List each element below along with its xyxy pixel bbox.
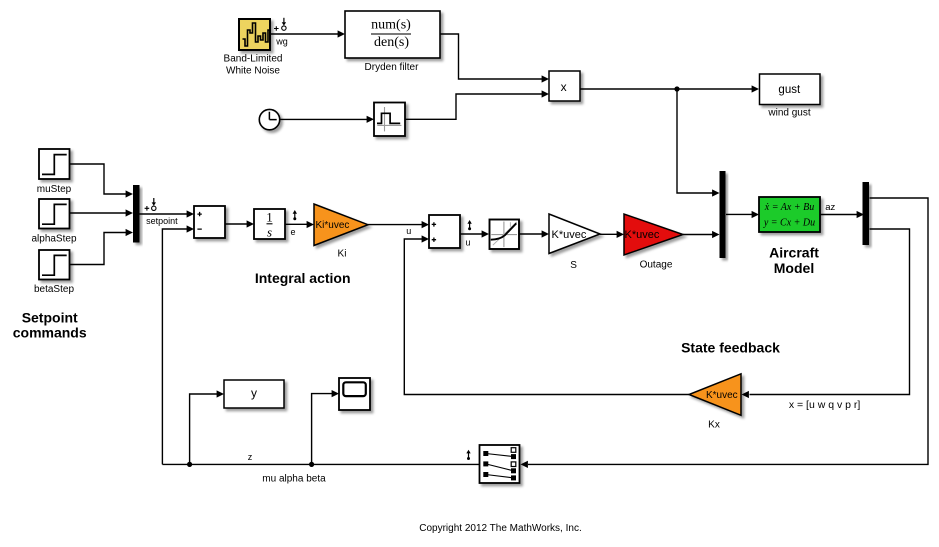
- svg-text:num(s): num(s): [371, 18, 411, 33]
- svg-text:setpoint: setpoint: [146, 216, 178, 226]
- svg-text:Aircraft: Aircraft: [769, 245, 819, 261]
- svg-text:alphaStep: alphaStep: [31, 234, 76, 245]
- svg-text:gust: gust: [778, 84, 801, 96]
- svg-text:K*uvec: K*uvec: [552, 229, 587, 241]
- svg-text:y = Cx + Du: y = Cx + Du: [763, 218, 815, 229]
- svg-text:Kx: Kx: [708, 420, 720, 431]
- svg-text:White Noise: White Noise: [226, 66, 280, 77]
- svg-text:Dryden filter: Dryden filter: [365, 62, 420, 73]
- svg-text:Setpoint: Setpoint: [22, 310, 78, 326]
- svg-text:K*uvec: K*uvec: [706, 390, 738, 401]
- svg-text:Outage: Outage: [640, 259, 673, 270]
- svg-text:den(s): den(s): [374, 35, 409, 50]
- svg-text:wg: wg: [275, 36, 288, 46]
- svg-text:az: az: [825, 202, 835, 213]
- svg-text:Copyright 2012 The MathWorks,: Copyright 2012 The MathWorks, Inc.: [419, 523, 582, 534]
- svg-text:z: z: [248, 452, 253, 462]
- svg-text:commands: commands: [13, 324, 87, 340]
- svg-text:muStep: muStep: [37, 184, 72, 195]
- svg-text:y: y: [251, 386, 257, 400]
- svg-text:ẋ = Ax + Bu: ẋ = Ax + Bu: [764, 202, 814, 213]
- svg-text:e: e: [290, 227, 295, 237]
- svg-text:Band-Limited: Band-Limited: [224, 54, 283, 65]
- svg-text:K*uvec: K*uvec: [625, 229, 660, 241]
- svg-text:mu alpha beta: mu alpha beta: [262, 474, 326, 485]
- svg-text:S: S: [570, 260, 577, 271]
- svg-text:x = [u w q v p r]: x = [u w q v p r]: [789, 399, 861, 411]
- svg-text:betaStep: betaStep: [34, 284, 74, 295]
- svg-text:Ki*uvec: Ki*uvec: [316, 220, 350, 231]
- svg-text:State feedback: State feedback: [681, 340, 780, 356]
- svg-text:Model: Model: [774, 260, 814, 276]
- svg-text:u: u: [465, 237, 470, 247]
- svg-text:wind gust: wind gust: [767, 107, 810, 118]
- svg-text:u: u: [406, 226, 411, 236]
- svg-text:Ki: Ki: [338, 249, 347, 260]
- svg-text:x: x: [561, 80, 567, 94]
- svg-text:Integral action: Integral action: [255, 270, 351, 286]
- svg-text:s: s: [267, 225, 272, 240]
- svg-text:1: 1: [266, 209, 273, 224]
